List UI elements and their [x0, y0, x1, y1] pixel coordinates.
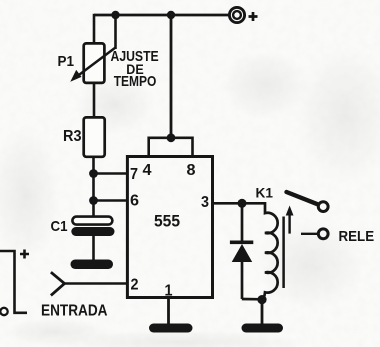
ground (pin 1)	[149, 324, 193, 333]
svg-text:K1: K1	[256, 185, 274, 200]
label AJUSTE DE TEMPO	[111, 48, 159, 90]
svg-text:TEMPO: TEMPO	[114, 73, 157, 90]
wire pin 3 to relay	[213, 202, 266, 205]
svg-text:P1: P1	[58, 54, 75, 70]
wire top rail to P1	[93, 14, 96, 44]
svg-text:3: 3	[201, 194, 209, 211]
input arrow ENTRADA	[51, 272, 65, 295]
junction node pin 7	[89, 169, 98, 178]
wire diode to coil bottom	[242, 298, 262, 301]
wire to pin 6	[94, 199, 129, 202]
svg-text:ENTRADA: ENTRADA	[41, 303, 108, 320]
junction diode top	[238, 199, 247, 208]
wire pin 1 to ground	[167, 298, 170, 325]
svg-text:4: 4	[143, 162, 152, 179]
junction coil bottom	[257, 295, 266, 304]
junction node pin 6	[89, 196, 98, 205]
wire input to pin 2	[65, 282, 129, 285]
wire bracket to top rail	[170, 15, 173, 138]
svg-text:RELE: RELE	[339, 228, 375, 245]
resistor R3	[84, 117, 105, 156]
relay contact top	[318, 202, 328, 212]
label + (left)	[20, 250, 29, 259]
terminal o (left edge)	[0, 308, 7, 315]
svg-text:R3: R3	[63, 128, 82, 145]
svg-text:8: 8	[187, 162, 196, 179]
ground (C1)	[71, 260, 114, 270]
svg-text:C1: C1	[51, 218, 68, 235]
diode D1	[230, 203, 253, 299]
wire P1 wiper to top rail	[114, 15, 117, 49]
relay contact bottom	[301, 229, 328, 239]
relay coil K1	[262, 202, 278, 300]
terminal V+	[229, 7, 244, 22]
IC U1 555	[127, 157, 212, 298]
svg-text:7: 7	[130, 166, 138, 183]
wire coil to ground	[261, 300, 264, 324]
relay core	[282, 217, 285, 289]
relay actuation arrow	[286, 206, 294, 234]
svg-text:1: 1	[165, 283, 173, 300]
svg-text:2: 2	[131, 277, 139, 294]
wire V+ top rail	[94, 14, 229, 17]
wire pin4-pin8 bracket	[149, 138, 193, 157]
wire P1 to R3	[93, 83, 96, 118]
wire node 6 to C1	[92, 201, 95, 218]
potentiometer P1	[70, 43, 115, 83]
ground (relay)	[242, 324, 284, 333]
wire to pin 7	[94, 172, 129, 175]
junction top rail / P1 wiper	[111, 11, 119, 19]
junction on bracket	[167, 133, 176, 142]
label + (V+)	[249, 12, 258, 21]
svg-text:6: 6	[130, 193, 139, 210]
capacitor C1	[71, 217, 114, 236]
wire R3 to node 7	[92, 157, 95, 174]
relay armature contact	[287, 192, 318, 204]
wire C1 to ground	[92, 236, 95, 260]
junction top rail / pin8 branch	[167, 11, 175, 19]
svg-text:555: 555	[154, 213, 180, 231]
wire node 7 to node 6	[92, 174, 95, 201]
wire left edge connector	[0, 251, 27, 313]
